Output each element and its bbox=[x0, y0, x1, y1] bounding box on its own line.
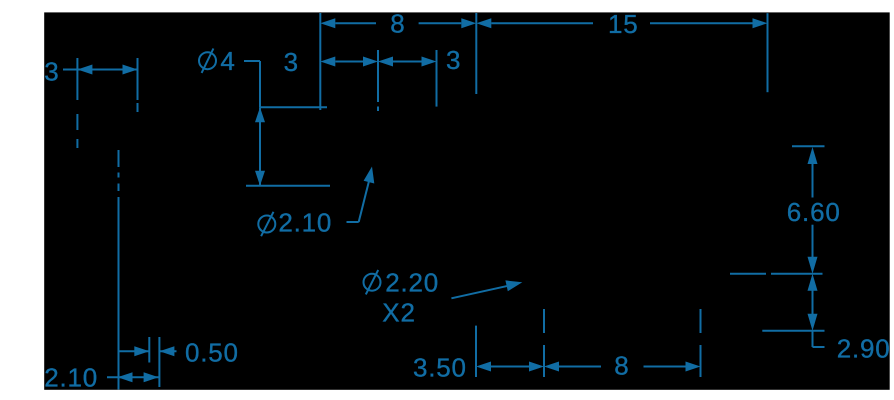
right centerline cross bbox=[730, 273, 823, 275]
top dimension row: extension line 3 bbox=[767, 13, 769, 92]
dimension 3 (top-left) text bbox=[44, 56, 59, 86]
dimension 3 (row 2 right) text bbox=[446, 45, 461, 75]
dimension 3 (row 2 left) line and arrows bbox=[320, 57, 378, 67]
dimension 8 (bottom) bbox=[544, 350, 701, 380]
svg-text:2.90: 2.90 bbox=[837, 334, 891, 364]
dimension 8 (top) bbox=[320, 9, 476, 39]
dimension 15 (top) bbox=[476, 9, 767, 39]
bottom row extension tick 1 bbox=[475, 326, 477, 377]
dimension 3 (top-left) line and arrows bbox=[63, 65, 138, 75]
svg-text:6.60: 6.60 bbox=[787, 197, 841, 227]
svg-text:3: 3 bbox=[44, 56, 59, 86]
svg-text:3.50: 3.50 bbox=[413, 352, 467, 382]
svg-text:8: 8 bbox=[390, 9, 405, 39]
dimension 3.50 text bbox=[413, 352, 467, 382]
extension tick for 0.50 right bbox=[158, 337, 160, 387]
dimension 2.10 line and arrows bbox=[107, 372, 159, 382]
dimension 3 (row 2 right) line and arrows bbox=[378, 57, 437, 67]
svg-text:2.20: 2.20 bbox=[385, 268, 439, 298]
dimension 2.90 bbox=[808, 274, 825, 347]
extension line left of 3 dim bbox=[76, 58, 78, 148]
bottom row extension tick 2 (centerline) bbox=[543, 309, 545, 377]
bottom row extension tick 3 (centerline) bbox=[700, 309, 702, 377]
vertical dimension for diameter 4 bbox=[246, 107, 330, 186]
extension line right of 3 dim bbox=[137, 58, 139, 112]
dimension 0.50 lines and arrows bbox=[120, 346, 177, 356]
dimension 3.50 line and arrows bbox=[476, 362, 544, 372]
top dimension row: extension line 2 bbox=[475, 13, 477, 94]
long vertical centerline bbox=[118, 150, 120, 390]
svg-text:X2: X2 bbox=[382, 298, 415, 328]
svg-text:0.50: 0.50 bbox=[185, 337, 239, 367]
svg-text:2.10: 2.10 bbox=[278, 207, 332, 237]
label X2 bbox=[382, 298, 415, 328]
svg-text:3: 3 bbox=[446, 45, 461, 75]
extension tick for 0.50 left bbox=[148, 337, 150, 363]
right top extension tick bbox=[792, 145, 825, 147]
dimension 2.90 text bbox=[837, 334, 891, 364]
dimension 3 (row 2 left) text bbox=[284, 47, 299, 77]
svg-text:8: 8 bbox=[614, 350, 629, 380]
leader from diameter 2.10 label bbox=[347, 167, 375, 223]
extension tick right of 3 dims bbox=[436, 50, 438, 107]
leader from diameter 4 label bbox=[244, 61, 260, 107]
svg-text:2.10: 2.10 bbox=[44, 362, 98, 392]
label diameter 2.10 bbox=[258, 207, 332, 237]
svg-text:3: 3 bbox=[284, 47, 299, 77]
top dimension row: extension line 1 bbox=[319, 13, 321, 110]
label diameter 4 bbox=[199, 46, 236, 76]
svg-text:15: 15 bbox=[608, 9, 639, 39]
leader from diameter 2.20 label bbox=[451, 280, 522, 298]
hole centerline tick (middle) bbox=[377, 50, 379, 111]
right bottom extension tick bbox=[762, 330, 824, 332]
svg-text:4: 4 bbox=[220, 46, 235, 76]
dimension 0.50 text bbox=[185, 337, 239, 367]
dimension 2.10 text bbox=[44, 362, 98, 392]
dimension 6.60 bbox=[787, 147, 841, 274]
label diameter 2.20 bbox=[364, 268, 440, 298]
